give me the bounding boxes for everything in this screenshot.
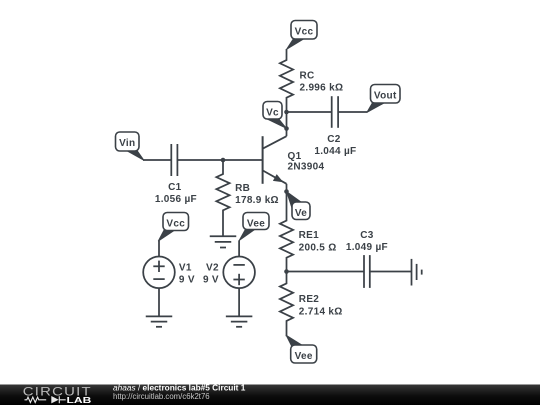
svg-text:C1: C1 xyxy=(168,182,182,193)
svg-text:Vee: Vee xyxy=(295,351,313,362)
svg-text:RB: RB xyxy=(235,183,250,194)
svg-text:Vout: Vout xyxy=(374,91,397,102)
svg-text:C3: C3 xyxy=(360,230,374,241)
svg-text:LAB: LAB xyxy=(67,395,92,405)
svg-text:Vee: Vee xyxy=(247,219,265,230)
svg-text:V1: V1 xyxy=(179,263,192,274)
svg-text:Vin: Vin xyxy=(119,138,135,149)
svg-text:RC: RC xyxy=(300,71,315,82)
svg-text:RE1: RE1 xyxy=(299,230,319,241)
svg-text:Vcc: Vcc xyxy=(295,27,314,38)
svg-text:1.044 µF: 1.044 µF xyxy=(314,146,356,157)
svg-text:http://circuitlab.com/c6k2t76: http://circuitlab.com/c6k2t76 xyxy=(113,392,210,401)
svg-text:9 V: 9 V xyxy=(179,275,195,286)
svg-text:Ve: Ve xyxy=(295,208,307,219)
svg-text:Vcc: Vcc xyxy=(166,219,185,230)
svg-text:RE2: RE2 xyxy=(299,294,319,305)
svg-text:Vc: Vc xyxy=(266,108,279,119)
svg-text:2N3904: 2N3904 xyxy=(288,162,325,173)
svg-text:V2: V2 xyxy=(206,263,219,274)
svg-text:Q1: Q1 xyxy=(288,151,302,162)
svg-text:2.996 kΩ: 2.996 kΩ xyxy=(300,83,344,94)
svg-text:1.056 µF: 1.056 µF xyxy=(155,194,197,205)
svg-text:200.5 Ω: 200.5 Ω xyxy=(299,242,337,253)
svg-text:1.049 µF: 1.049 µF xyxy=(346,242,388,253)
svg-text:9 V: 9 V xyxy=(203,275,219,286)
svg-text:178.9 kΩ: 178.9 kΩ xyxy=(235,195,279,206)
svg-text:2.714 kΩ: 2.714 kΩ xyxy=(299,306,343,317)
svg-text:C2: C2 xyxy=(327,134,341,145)
